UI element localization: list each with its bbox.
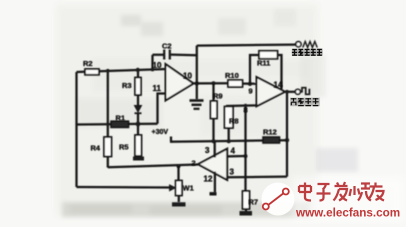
svg-text:R3: R3 xyxy=(122,81,132,90)
svg-text:8: 8 xyxy=(244,106,248,115)
wire: op3 power stub up xyxy=(214,142,216,158)
node: junction pin8 xyxy=(244,104,248,108)
wire: corner to op1 pin 11 xyxy=(158,94,166,124)
char fa xyxy=(334,182,348,201)
char shao xyxy=(350,184,372,201)
node: junction R9 bottom xyxy=(212,139,216,143)
node: junction op3 top input / R7 vertical xyxy=(244,154,248,158)
resistor R7 xyxy=(240,191,253,216)
wire: op3 power stub down with bar xyxy=(210,172,217,194)
wire: vertical from op1 output up to top wire xyxy=(196,46,198,84)
node: junction C2 left leg xyxy=(151,68,155,72)
node: junction square output tee xyxy=(285,90,289,94)
node: junction W1 top xyxy=(177,164,181,168)
resistor R4 xyxy=(104,137,112,168)
svg-text:R1: R1 xyxy=(116,114,126,123)
svg-text:R5: R5 xyxy=(119,143,129,152)
capacitor C2 xyxy=(153,50,197,70)
wire: vertical from square output down xyxy=(286,92,288,177)
wire: bottom rail to W1 wiper xyxy=(77,186,170,189)
CJK output labels (pseudo glyphs) xyxy=(290,49,323,107)
logo circle xyxy=(262,183,295,216)
svg-text:14: 14 xyxy=(274,81,283,90)
tick at +30V label xyxy=(170,137,172,142)
text: triangle wave output xyxy=(292,49,323,56)
terminal: square wave output xyxy=(295,89,300,94)
svg-text:+30V: +30V xyxy=(152,129,169,136)
red CJK watermark text (pseudo glyphs) xyxy=(299,182,384,201)
op-amp U2 xyxy=(257,77,286,106)
resistor R12 xyxy=(263,137,280,143)
char dian xyxy=(299,183,311,201)
node: junction R12 right xyxy=(285,138,289,142)
icon: triangle wave xyxy=(303,42,317,48)
svg-text:W1: W1 xyxy=(183,184,194,193)
svg-text:R10: R10 xyxy=(225,71,239,80)
wire: op1 output to R10 xyxy=(194,82,229,84)
text: square wave output xyxy=(290,98,320,107)
node: junction pin9 / R11 xyxy=(248,82,252,86)
resistor R10 xyxy=(228,80,257,87)
wire: op3 output to R4 xyxy=(108,165,198,168)
wire: op3 top input xyxy=(227,155,245,158)
svg-text:R12: R12 xyxy=(263,128,277,137)
scan field background xyxy=(56,4,358,217)
svg-text:4: 4 xyxy=(231,147,236,156)
potentiometer W1 xyxy=(170,166,186,206)
resistor R9 xyxy=(211,83,218,141)
svg-text:R2: R2 xyxy=(83,59,93,68)
svg-text:3: 3 xyxy=(230,168,235,177)
icon: square wave xyxy=(301,88,310,95)
svg-text:C2: C2 xyxy=(162,42,172,51)
wire: vertical x107 (top rail to R4) xyxy=(107,71,109,137)
node: junction R3 top on rail xyxy=(136,68,140,72)
resistor R3 xyxy=(135,70,141,106)
wire: top rail xyxy=(77,69,168,72)
diode D1 xyxy=(135,106,142,123)
op-amp U1 xyxy=(166,64,194,101)
WATERMARK xyxy=(262,177,405,221)
wire: pin8 input wire xyxy=(226,104,257,107)
terminal: triangle wave output xyxy=(296,42,301,47)
node: op1 output junction xyxy=(195,81,199,85)
svg-text:9: 9 xyxy=(249,87,253,96)
node: junction top rail x108 xyxy=(106,69,110,73)
char zi xyxy=(317,184,331,201)
resistor R8 xyxy=(225,107,234,142)
svg-text:11: 11 xyxy=(153,84,162,93)
resistor R5 xyxy=(133,126,144,161)
svg-text:R7: R7 xyxy=(249,198,259,207)
wire: vertical pin8 to R7 xyxy=(244,106,246,191)
svg-text:R9: R9 xyxy=(213,92,223,101)
svg-text:10: 10 xyxy=(183,72,192,81)
node: junction R8 bottom xyxy=(227,139,231,143)
node: junction R1 left xyxy=(106,122,110,126)
wire: op3 lower input to square output vertical xyxy=(227,175,287,178)
node: junction R1/diode/R5 xyxy=(136,122,141,127)
svg-text:3: 3 xyxy=(205,146,210,155)
svg-text:12: 12 xyxy=(204,175,213,184)
ground below op1 output xyxy=(190,83,204,108)
wire: square output xyxy=(285,91,295,93)
wire: middle rail y124 xyxy=(77,123,158,126)
svg-text:10: 10 xyxy=(153,61,162,70)
svg-text:2: 2 xyxy=(192,159,196,168)
char you xyxy=(369,183,385,201)
svg-text:R8: R8 xyxy=(229,117,239,126)
svg-text:R11: R11 xyxy=(257,59,270,68)
resistor R2 xyxy=(85,69,99,75)
wire: left vertical xyxy=(75,72,77,187)
resistor R1 xyxy=(111,121,129,127)
op-amp U3 (points left) xyxy=(198,149,227,180)
svg-text:R4: R4 xyxy=(91,144,101,153)
wire: +30V rail xyxy=(170,140,287,142)
resistor R11 feedback loop xyxy=(250,51,282,89)
wire: top long wire to triangle output xyxy=(197,45,296,46)
node: junction R9 top xyxy=(212,81,216,85)
svg-text:www.elecfans.com: www.elecfans.com xyxy=(295,207,400,220)
